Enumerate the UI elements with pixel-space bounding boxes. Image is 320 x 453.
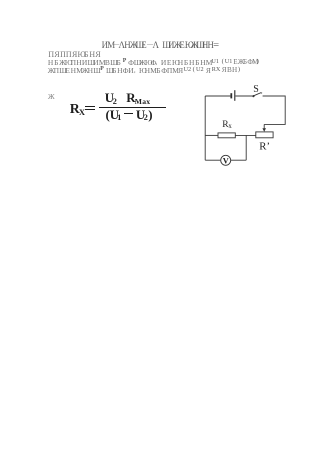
- bottom wire right part: [231, 159, 246, 161]
- body line 1: [48, 51, 54, 59]
- svg-text:x: x: [228, 123, 232, 130]
- title line: [102, 41, 108, 50]
- body line 3: [48, 67, 54, 75]
- marker ze: [48, 93, 54, 101]
- resistor Rx body: [218, 133, 235, 138]
- battery cell: [231, 90, 235, 101]
- bottom wire left part: [205, 159, 220, 161]
- wire battery to switch: [236, 95, 253, 97]
- middle wire left of Rx: [205, 134, 218, 136]
- rheostat R' body: [256, 132, 273, 138]
- formula Rx equation: [70, 102, 80, 116]
- svg-text:V: V: [223, 156, 229, 165]
- switch S pivot dot: [252, 95, 254, 97]
- slider arrow head: [262, 128, 266, 132]
- slider arrow shaft: [263, 124, 265, 128]
- body line 2: [48, 59, 54, 67]
- svg-text:S: S: [253, 84, 259, 95]
- voltmeter body: [221, 155, 231, 165]
- left rail: [204, 96, 206, 160]
- middle wire Rx to rheostat: [235, 134, 256, 136]
- switch S lever: [254, 93, 262, 96]
- svg-text:R’: R’: [259, 140, 270, 152]
- wire switch to top-right corner and right rail: [263, 96, 286, 124]
- wire top-left segment: [205, 95, 230, 97]
- voltmeter branch rail: [245, 135, 247, 160]
